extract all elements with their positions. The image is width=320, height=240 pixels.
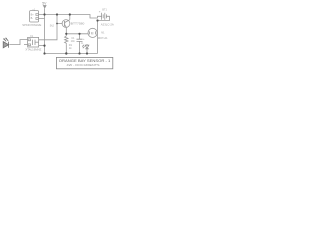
svg-text:C1: C1 (71, 36, 75, 40)
svg-text:10n: 10n (71, 39, 76, 43)
svg-text:SPKR PKM22E: SPKR PKM22E (22, 23, 41, 27)
svg-text:A23LC-2A: A23LC-2A (101, 23, 114, 27)
svg-text:X1: X1 (30, 34, 34, 38)
svg-text:M: M (91, 31, 94, 35)
svg-text:B-: B- (31, 17, 34, 20)
svg-text:ORANGE BAY SENSOR - 1: ORANGE BAY SENSOR - 1 (59, 59, 111, 63)
svg-text:B+: B+ (31, 13, 35, 16)
svg-text:5V: 5V (42, 1, 47, 5)
svg-text:XTAL16MHZ: XTAL16MHZ (25, 48, 41, 52)
svg-text:+: + (99, 10, 101, 14)
svg-text:5k2: 5k2 (50, 23, 55, 27)
svg-text:BTT7580: BTT7580 (71, 22, 85, 26)
svg-text:4W - DOCUMENTS: 4W - DOCUMENTS (67, 63, 100, 67)
svg-text:MOT-A1: MOT-A1 (98, 36, 108, 40)
svg-text:BT1: BT1 (102, 8, 107, 12)
